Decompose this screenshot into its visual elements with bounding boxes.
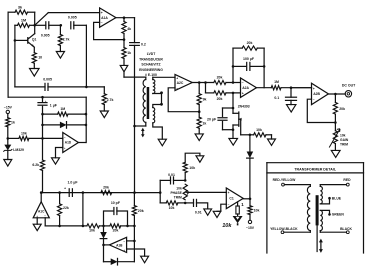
label phase trim 1	[176, 186, 182, 190]
label GREEN	[332, 213, 345, 217]
label 2N4393	[238, 104, 250, 108]
resistor 2.7k first	[58, 25, 62, 51]
svg-text:LVDT: LVDT	[147, 52, 157, 56]
wire A1D output rail (left)	[7, 12, 9, 97]
node 20k split	[204, 81, 207, 84]
svg-text:−: −	[64, 135, 66, 139]
svg-text:TRIM: TRIM	[174, 196, 182, 200]
svg-text:−15V: −15V	[246, 226, 255, 230]
label 4k	[127, 27, 131, 31]
svg-text:0.2: 0.2	[141, 43, 146, 47]
terminal BLACK	[346, 231, 349, 234]
svg-text:A2C: A2C	[177, 81, 184, 85]
svg-text:2.7k: 2.7k	[107, 98, 114, 102]
ground A1C	[33, 224, 41, 230]
svg-text:2.7k: 2.7k	[63, 37, 70, 41]
svg-text:1M: 1M	[21, 19, 26, 23]
label 100uF	[243, 57, 255, 61]
label YELLOW-BLACK	[270, 227, 298, 231]
svg-text:1k: 1k	[127, 51, 131, 55]
capacitor 10pF	[104, 208, 128, 226]
node 1uF top	[41, 96, 44, 99]
ground LM329	[4, 160, 12, 167]
label 1uF	[45, 99, 58, 108]
label 20k demod	[103, 186, 109, 190]
label 1k bias	[11, 120, 15, 124]
ground RC1	[56, 52, 64, 59]
svg-text:−: −	[242, 81, 244, 85]
resistor 20k A2B	[333, 94, 337, 123]
label gain trim 2	[340, 138, 349, 142]
node pot bottom	[184, 202, 187, 205]
svg-text:+: +	[64, 186, 66, 190]
capacitor 20pF	[218, 108, 233, 130]
transistor Q1	[15, 25, 35, 47]
node BLUE	[328, 197, 331, 200]
detail secondary lower	[320, 210, 322, 230]
wire secondary bottom	[153, 123, 163, 139]
svg-text:0.005: 0.005	[68, 15, 77, 19]
label 2.7k first	[63, 37, 70, 41]
svg-text:+: +	[176, 76, 178, 80]
wire secondary top to A2C	[153, 76, 175, 78]
label LVDT line3	[141, 63, 160, 67]
capacitor 1.0uF	[69, 189, 72, 197]
terminal -15V comparator	[248, 220, 251, 223]
label 0.005 first	[41, 34, 50, 38]
node GREEN	[328, 213, 331, 216]
label LM329	[13, 148, 24, 152]
svg-text:TRANSFORMER DETAIL: TRANSFORMER DETAIL	[294, 167, 336, 171]
capacitor 0.01 upper	[160, 177, 185, 193]
node 1M left	[41, 113, 44, 116]
resistor 1k (A2C)	[197, 112, 201, 134]
label 1M output	[274, 80, 279, 84]
wire source to gnd	[232, 130, 234, 139]
svg-text:+: +	[242, 92, 244, 96]
wire A1D input column	[42, 114, 44, 138]
wire inverting line	[60, 225, 87, 227]
capacitor 0.005 third (feedback)	[15, 83, 87, 90]
node pot top	[184, 179, 187, 182]
wire A1D plus gnd	[56, 148, 63, 158]
wire YELLOW-BLACK	[284, 231, 310, 233]
wire A1B out	[104, 244, 110, 246]
svg-text:−15V: −15V	[4, 106, 13, 110]
resistor 1k bias	[6, 114, 10, 139]
svg-text:A1B: A1B	[116, 243, 123, 247]
svg-text:100 µF: 100 µF	[243, 57, 255, 61]
svg-text:A1A: A1A	[101, 16, 108, 20]
svg-text:GREEN: GREEN	[332, 213, 345, 217]
svg-text:YELLOW-BLACK: YELLOW-BLACK	[270, 227, 298, 231]
svg-text:10k: 10k	[256, 128, 262, 132]
label phase trim 3	[174, 196, 182, 200]
core motion arrow	[141, 128, 145, 138]
svg-text:10: 10	[38, 56, 42, 60]
LVDT core	[147, 87, 150, 119]
node LM329	[7, 137, 10, 140]
node A1B minus	[133, 240, 136, 243]
label RED	[343, 178, 351, 182]
svg-text:+: +	[313, 87, 315, 91]
resistor 20k A1B fb	[110, 224, 134, 228]
wire node to A1A+	[35, 13, 100, 26]
node diode left	[41, 124, 44, 127]
wire A2A fb up	[233, 48, 242, 82]
label BLUE	[332, 197, 342, 201]
zener LM329	[3, 138, 12, 159]
svg-text:Q1: Q1	[32, 37, 37, 41]
terminal -15V source	[6, 110, 9, 113]
bold ground arrow pin1	[233, 214, 243, 225]
svg-text:DC OUT: DC OUT	[342, 84, 356, 88]
capacitor 0.01 lower	[185, 199, 208, 209]
JFET 2N4393	[233, 108, 242, 135]
svg-text:10k: 10k	[89, 228, 95, 232]
label 9k	[203, 98, 207, 102]
resistor 20k vertical	[132, 193, 136, 226]
label pin 1	[241, 202, 244, 207]
node C1 out	[249, 198, 252, 201]
node A2A minus	[232, 81, 235, 84]
resistor 10k upper	[183, 153, 200, 180]
svg-text:−: −	[176, 86, 178, 90]
label 20k A2B	[339, 107, 345, 111]
node secondary dot upper	[160, 91, 163, 94]
wire A1B minus stub	[127, 240, 135, 242]
svg-text:A2A: A2A	[242, 86, 249, 90]
wire A2C output	[192, 82, 214, 84]
ground C1 minus	[213, 211, 221, 217]
terminal RED	[346, 183, 349, 186]
detail core	[316, 195, 319, 225]
resistor 10k ref	[8, 136, 63, 140]
resistor 4k	[122, 18, 126, 40]
ground 0.1	[287, 105, 296, 112]
wire base column	[14, 25, 16, 87]
ground phase 10k	[196, 156, 204, 162]
node 10pF right	[126, 225, 129, 228]
svg-text:20k: 20k	[339, 107, 345, 111]
node secondary dot lower	[160, 103, 163, 106]
wire A1B plus	[127, 249, 145, 256]
resistor 3k	[8, 10, 35, 25]
label 0.005 third	[43, 78, 52, 82]
resistor 10k lower	[160, 193, 185, 205]
label 20pF	[207, 117, 217, 121]
wire fb right	[263, 48, 265, 88]
wire demod line	[41, 192, 160, 194]
wire secondary series link	[153, 94, 162, 108]
wire cap2 to node	[85, 25, 87, 87]
svg-text:0.005: 0.005	[41, 34, 50, 38]
node RC1	[60, 24, 63, 27]
node transformer return	[133, 191, 136, 194]
ground RC2	[100, 111, 108, 118]
svg-text:0.005: 0.005	[43, 78, 52, 82]
wire A2C feedback	[168, 88, 199, 112]
resistor 1k (A1A)	[122, 40, 126, 66]
capacitor 0.005 first	[35, 22, 61, 29]
svg-text:+: +	[123, 248, 125, 252]
capacitor 0.005 second	[71, 22, 87, 29]
node phase trim entry	[159, 191, 162, 194]
node fb cap right	[263, 65, 266, 68]
op-amp A1B	[109, 237, 126, 252]
resistor 20k feedback	[242, 46, 264, 50]
wire BLACK	[320, 231, 346, 233]
svg-text:1k: 1k	[11, 120, 15, 124]
node Q1 base	[14, 39, 17, 42]
wire wiper to C1	[189, 191, 227, 193]
label 2.7k second	[107, 98, 114, 102]
svg-text:−: −	[313, 98, 315, 102]
diode A1B output	[104, 241, 135, 265]
op-amp A2A	[241, 78, 257, 97]
wire A2B output	[328, 93, 345, 95]
node primary bottom	[133, 125, 136, 128]
resistor 10k pulldown	[248, 199, 252, 220]
wire RED-YELLOW	[284, 185, 310, 187]
svg-text:RED: RED	[343, 178, 351, 182]
label 10pF	[111, 201, 121, 205]
label -15V source	[4, 106, 13, 110]
LVDT primary winding	[143, 80, 146, 123]
label 0.01 upper	[168, 173, 175, 177]
op-amp A2B	[312, 83, 329, 104]
ground gain trim	[331, 150, 340, 157]
terminal YELLOW-BLACK	[281, 231, 284, 234]
label 10k A1B in	[89, 228, 95, 232]
label 20k vertical	[138, 209, 144, 213]
terminal RED-YELLOW	[282, 183, 285, 186]
label 1k A2C	[202, 122, 206, 126]
label gain trim 3	[340, 143, 348, 147]
wire BLUE tap	[320, 198, 329, 204]
svg-text:+: +	[101, 11, 103, 15]
label LVDT line4	[139, 68, 163, 72]
wire A1C out	[40, 193, 42, 202]
label 10k gate	[256, 128, 262, 132]
svg-text:0.01: 0.01	[195, 210, 202, 214]
label LVDT line1	[147, 52, 157, 56]
svg-text:# E-100: # E-100	[145, 73, 157, 77]
node A1B out	[102, 244, 105, 247]
op-amp A1A	[100, 8, 116, 27]
label 10k upper	[189, 166, 195, 170]
node 1uF out	[82, 191, 85, 194]
label 10k ref	[21, 131, 27, 135]
svg-text:−: −	[228, 203, 230, 207]
label 1k A1A	[127, 51, 131, 55]
LVDT secondary lower	[153, 108, 155, 123]
label 20k lower	[217, 97, 223, 101]
node A1C out	[40, 191, 43, 194]
op-amp A1C	[33, 202, 49, 218]
svg-text:A1C: A1C	[38, 209, 45, 213]
label RED-YELLOW	[273, 178, 297, 182]
svg-text:TRIM: TRIM	[340, 143, 348, 147]
resistor 22k	[58, 193, 62, 226]
node A2B fb	[334, 121, 337, 124]
wire plus node down	[232, 93, 234, 108]
resistor 1M	[15, 23, 35, 27]
C1 pin 1 resistor box	[236, 202, 239, 214]
svg-text:10k: 10k	[340, 134, 346, 138]
node 1M-0.1	[290, 86, 293, 89]
svg-text:20k: 20k	[113, 228, 119, 232]
node 4k-1k	[123, 38, 126, 41]
wire gate line	[241, 134, 250, 136]
wire C1 minus to gnd	[217, 204, 226, 211]
label 0.1	[274, 96, 279, 100]
svg-text:20k: 20k	[138, 209, 144, 213]
terminal DC OUT	[345, 91, 351, 97]
resistor 10k gate	[250, 133, 272, 139]
node gate	[249, 134, 252, 137]
capacitor 1uF	[38, 97, 47, 114]
label gain trim 1	[340, 134, 346, 138]
ground emitter	[30, 69, 40, 77]
wire primary bottom	[135, 122, 146, 126]
node A2A plus	[232, 92, 235, 95]
wire GREEN tap	[320, 210, 329, 214]
node A2B out	[334, 93, 337, 96]
wire A2A output	[257, 87, 272, 89]
wire C1 output	[243, 198, 250, 200]
node FET drain	[232, 107, 235, 110]
resistor 1M output	[271, 86, 311, 90]
svg-text:+: +	[45, 99, 47, 103]
svg-text:10k: 10k	[169, 206, 175, 210]
resistor 20k demod	[101, 191, 112, 195]
ground gate 10k	[268, 139, 276, 145]
label 20k A1B fb	[113, 228, 119, 232]
ground secondary	[158, 139, 166, 146]
label 1M	[21, 19, 26, 23]
label LVDT line5	[145, 73, 157, 77]
resistor 10k A1B in	[87, 224, 110, 228]
node 20k vert bottom	[133, 225, 136, 228]
capacitor 0.1	[286, 88, 297, 105]
ground 1k A2C	[195, 134, 203, 141]
label LVDT line2	[139, 57, 163, 61]
detail primary winding	[307, 186, 310, 230]
svg-text:10k: 10k	[176, 186, 182, 190]
resistor 1M A1D fb	[43, 112, 86, 116]
op-amp A2C	[175, 75, 192, 91]
ground 0.01 lower	[204, 209, 212, 215]
svg-text:2N4393: 2N4393	[238, 104, 250, 108]
svg-text:LM329: LM329	[13, 148, 24, 152]
wire A2B input	[291, 87, 312, 89]
label BLACK	[340, 227, 352, 231]
svg-text:A1D: A1D	[65, 141, 72, 145]
diode A1B clamp	[100, 226, 107, 245]
svg-text:10 pF: 10 pF	[111, 201, 121, 205]
svg-text:0.01: 0.01	[168, 173, 175, 177]
svg-text:TRANSDUCER: TRANSDUCER	[139, 57, 163, 61]
svg-text:1 µF: 1 µF	[50, 104, 58, 108]
label bold 10k	[222, 223, 232, 229]
label 0.01 lower	[195, 210, 202, 214]
ground A1B plus	[141, 256, 149, 263]
label phase trim 2	[170, 191, 182, 195]
LVDT secondary upper	[153, 77, 155, 93]
node phase-shift junction	[85, 86, 88, 89]
svg-text:GAIN: GAIN	[340, 138, 349, 142]
wire 1uF node down	[82, 193, 84, 226]
wire A1A feedback	[94, 22, 124, 39]
svg-text:6.2k: 6.2k	[32, 163, 39, 167]
node A2C out	[198, 81, 201, 84]
op-amp A1D	[63, 133, 79, 153]
detail motion arrow	[319, 239, 323, 253]
svg-text:C1: C1	[229, 197, 233, 201]
svg-text:PHASE: PHASE	[170, 191, 182, 195]
wire RED	[320, 185, 346, 187]
label DC OUT	[342, 84, 356, 88]
svg-text:1M: 1M	[60, 107, 65, 111]
svg-text:10k: 10k	[222, 223, 232, 229]
resistor 9k	[197, 83, 201, 112]
svg-text:10k: 10k	[21, 131, 27, 135]
label 0.2	[141, 43, 146, 47]
wire LVDT to demod line	[134, 126, 136, 193]
wire primary top to ground	[124, 77, 146, 79]
potentiometer 10k PHASE TRIM	[183, 184, 189, 200]
svg-text:22k: 22k	[63, 206, 69, 210]
resistor 20k upper input	[214, 80, 241, 84]
wire A2B feedback	[307, 99, 335, 122]
label Q1	[32, 37, 37, 41]
node A1B summing	[102, 225, 105, 228]
label 22k	[63, 206, 69, 210]
node inverting line	[82, 225, 85, 228]
ground A1D plus	[52, 158, 60, 164]
node osc collector	[33, 24, 36, 27]
svg-text:20k: 20k	[217, 76, 223, 80]
wire to lower 20k	[206, 83, 214, 93]
wire A1A out to cap	[134, 18, 136, 43]
wire A1C minus	[45, 218, 59, 226]
label 3k	[18, 6, 23, 10]
label 10k pulldown	[254, 209, 260, 213]
label 10k lower	[169, 206, 175, 210]
label 1.0uF	[64, 180, 78, 190]
svg-text:20k: 20k	[217, 97, 223, 101]
wire A1D out	[78, 142, 86, 144]
svg-text:BLUE: BLUE	[332, 197, 342, 201]
svg-text:1k: 1k	[202, 122, 206, 126]
detail core stem	[316, 225, 318, 251]
svg-text:−: −	[123, 239, 125, 243]
node 22k bottom	[58, 225, 61, 228]
node A1D input	[41, 137, 44, 140]
svg-text:RED-YELLOW: RED-YELLOW	[273, 178, 297, 182]
potentiometer 10k GAIN TRIM	[329, 123, 340, 151]
label 20k feedback	[247, 41, 253, 45]
svg-text:SCHAEVITZ: SCHAEVITZ	[141, 63, 160, 67]
svg-text:A2B: A2B	[313, 92, 320, 96]
node FET source	[232, 128, 235, 131]
resistor 10 (emitter)	[32, 47, 36, 68]
svg-text:4k: 4k	[127, 27, 131, 31]
node diode right	[85, 124, 88, 127]
svg-text:1M: 1M	[274, 80, 279, 84]
node fb cap left	[232, 65, 235, 68]
